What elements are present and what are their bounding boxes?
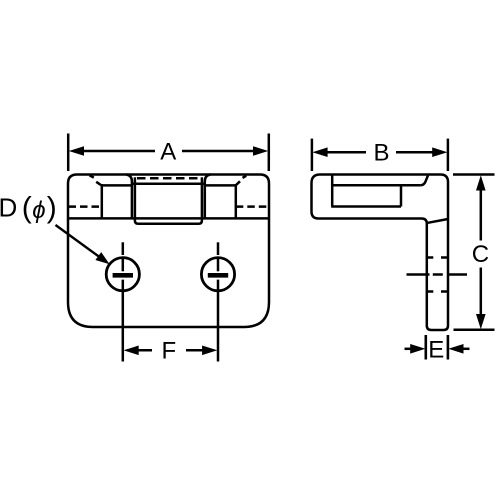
outer L-shaped outline bbox=[312, 175, 449, 331]
F arrowhead right bbox=[202, 346, 217, 356]
svg-text:): ) bbox=[47, 192, 57, 225]
left chamfer edge (lower segment) bbox=[96, 182, 101, 185]
channel bottom lip bbox=[135, 218, 202, 223]
svg-text:A: A bbox=[160, 138, 176, 165]
leader arrowhead bbox=[95, 252, 109, 264]
A dimension line right shaft bbox=[182, 150, 257, 153]
hidden channel back edge (dashed) bbox=[137, 177, 200, 180]
right chamfer edge (upper segment) bbox=[243, 176, 247, 178]
C extension line bottom bbox=[454, 328, 495, 331]
centerline right hole dash bbox=[217, 259, 220, 272]
centerline right hole upper bbox=[217, 242, 220, 255]
C arrowhead up bbox=[476, 175, 486, 190]
centerline left hole lower / F extension bbox=[122, 280, 125, 362]
centerline left hole upper bbox=[122, 242, 125, 255]
right block inner vertical bbox=[235, 184, 238, 218]
center mark bar left hole bbox=[113, 273, 133, 278]
B dimension line right shaft bbox=[396, 151, 436, 154]
channel right wall with rounded top bbox=[205, 175, 211, 219]
channel right wall inner line bbox=[201, 177, 204, 218]
E arrowhead left (points right) bbox=[410, 344, 425, 354]
channel left wall with rounded top bbox=[126, 175, 132, 219]
A arrowhead right bbox=[253, 146, 268, 156]
svg-text:B: B bbox=[373, 140, 389, 167]
svg-text:E: E bbox=[428, 337, 444, 364]
svg-text:D: D bbox=[0, 193, 17, 223]
inner shelf line bbox=[332, 184, 421, 187]
F dimension line left shaft bbox=[127, 349, 152, 352]
E dimension line left shaft bbox=[405, 348, 415, 351]
C extension line top bbox=[453, 173, 495, 176]
B extension line right bbox=[447, 139, 450, 171]
channel sill line bbox=[133, 182, 204, 185]
A arrowhead left bbox=[69, 146, 84, 156]
A extension line right bbox=[268, 134, 271, 172]
right hidden edge (dashed) bbox=[236, 205, 269, 208]
C dimension line upper bbox=[480, 186, 483, 241]
left hidden edge (dashed) bbox=[69, 205, 102, 208]
B arrowhead left bbox=[312, 147, 327, 157]
left chamfer edge (upper segment) bbox=[90, 175, 94, 177]
svg-text:C: C bbox=[472, 241, 489, 268]
right chamfer edge (lower segment) bbox=[236, 181, 240, 185]
A extension line left bbox=[67, 134, 70, 172]
leg hidden hole edge lower (dashes) bbox=[427, 290, 448, 293]
E arrowhead right (points left) bbox=[448, 344, 463, 354]
svg-text:(: ( bbox=[22, 192, 32, 225]
E extension bar left bbox=[424, 335, 427, 360]
inner recess bottom bbox=[331, 205, 401, 208]
shelf line right block bbox=[205, 184, 236, 187]
E extension bar right bbox=[447, 335, 450, 360]
B extension line left bbox=[311, 139, 314, 171]
svg-text:ϕ: ϕ bbox=[32, 197, 45, 224]
centerline left hole dash bbox=[122, 259, 125, 272]
B arrowhead right bbox=[432, 147, 447, 157]
mounting hole left bbox=[106, 258, 139, 291]
shelf line left block bbox=[102, 184, 132, 187]
full width base line of saddle bbox=[68, 217, 269, 220]
leg hidden hole edge upper (dashes) bbox=[427, 256, 448, 259]
channel left wall inner line bbox=[134, 177, 137, 218]
mounting hole right bbox=[201, 258, 234, 291]
E dimension line right shaft bbox=[460, 348, 470, 351]
B dimension line left shaft bbox=[324, 151, 366, 154]
F arrowhead left bbox=[124, 346, 139, 356]
inner recess right edge bbox=[400, 185, 403, 206]
A dimension line left shaft bbox=[80, 150, 155, 153]
F dimension line right shaft bbox=[186, 349, 212, 352]
left block inner vertical bbox=[101, 184, 104, 218]
leg centerline bbox=[407, 273, 468, 276]
leg top transition diagonal bbox=[428, 219, 448, 223]
centerline right hole lower / F extension bbox=[217, 280, 220, 362]
C dimension line lower bbox=[480, 268, 483, 319]
svg-text:F: F bbox=[161, 338, 176, 365]
inner recess vertical bbox=[331, 176, 334, 207]
leader line bbox=[56, 225, 100, 257]
outer body outline bbox=[68, 175, 269, 328]
inner shelf end diagonal bbox=[421, 175, 428, 185]
C arrowhead down bbox=[476, 314, 486, 329]
center mark bar right hole bbox=[208, 273, 228, 278]
